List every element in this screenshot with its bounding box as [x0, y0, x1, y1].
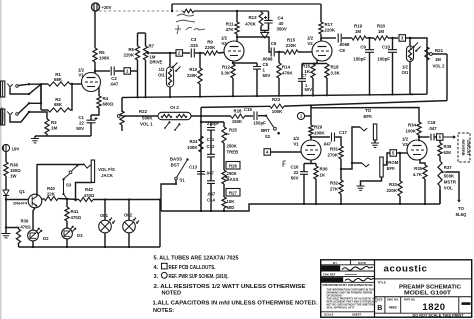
svg-text:R41: R41 — [71, 209, 79, 214]
svg-text:BASS: BASS — [227, 177, 239, 182]
wire B+ top rail — [172, 3, 321, 5]
svg-text:3: 3 — [401, 36, 404, 41]
svg-text:C15: C15 — [244, 107, 252, 112]
capacitor C10 100pF — [388, 50, 397, 53]
junction R39 tap — [5, 226, 7, 228]
resistor R1 68K — [48, 82, 70, 86]
junction rail — [411, 93, 413, 95]
svg-text:C8: C8 — [339, 48, 345, 53]
svg-text:470Ω: 470Ω — [71, 215, 82, 220]
svg-text:PART NO.: PART NO. — [404, 299, 416, 302]
svg-text:1W: 1W — [10, 174, 17, 179]
wire drive branch left — [137, 33, 139, 46]
wire R39 bottom — [18, 243, 20, 247]
junction R42/jack — [74, 199, 76, 201]
svg-text:R25: R25 — [229, 128, 237, 133]
wire R31 to R32 — [340, 159, 342, 180]
jack FROM EFF — [380, 157, 383, 177]
wire jack sleeve down — [76, 183, 93, 201]
svg-text:VOL 1: VOL 1 — [140, 122, 153, 127]
svg-text:R7: R7 — [149, 44, 155, 49]
junction bus tone — [223, 210, 225, 212]
wire C1 bottom — [90, 123, 92, 136]
transistor Q1 2N6474 — [28, 194, 42, 208]
wire C11 col top — [210, 122, 212, 126]
wire line A left — [201, 106, 270, 107]
svg-text:.047: .047 — [206, 171, 215, 176]
pcb box label R26 — [226, 162, 240, 170]
wire C15 out — [258, 115, 266, 117]
junction base node — [5, 198, 7, 200]
pcb callout 2 — [176, 50, 183, 57]
pcb callout 3 — [399, 35, 406, 42]
wire D2 bottom — [32, 241, 34, 247]
junction drive/OI1 — [169, 52, 171, 54]
wire callout stub — [305, 115, 311, 117]
wire V1a cathode — [98, 87, 100, 96]
wire R10 top — [199, 53, 201, 68]
svg-text:1820: 1820 — [422, 302, 445, 313]
wire rail drop x=172 — [171, 4, 173, 11]
node +19V supply — [2, 144, 9, 151]
svg-text:6L6Q: 6L6Q — [456, 212, 467, 217]
svg-text:6: 6 — [439, 135, 442, 140]
svg-text:.015: .015 — [189, 43, 198, 48]
svg-text:EFF.: EFF. — [363, 114, 372, 119]
pencil F mark — [283, 161, 286, 167]
capacitor C9 150pF — [365, 50, 374, 53]
switch S3 — [72, 166, 78, 171]
wire C18 out — [435, 136, 437, 138]
svg-text:C16: C16 — [290, 165, 299, 170]
svg-text:220K: 220K — [325, 28, 336, 33]
wire R38 down — [5, 176, 7, 190]
svg-text:R6: R6 — [128, 47, 134, 52]
svg-text:100K: 100K — [272, 109, 283, 114]
svg-text:470Ω: 470Ω — [20, 225, 31, 230]
svg-text:OI 2: OI 2 — [124, 213, 133, 218]
wire bus end up — [439, 190, 441, 204]
wire V1b cathode — [310, 160, 312, 164]
wire OI1 ldr top — [409, 38, 411, 46]
wire collector line — [37, 164, 84, 166]
title divider 1 — [375, 278, 472, 280]
junction eff send — [340, 168, 342, 170]
svg-text:C4: C4 — [278, 16, 284, 21]
svg-text:V2: V2 — [221, 41, 227, 46]
svg-text:S2: S2 — [265, 134, 271, 139]
svg-text:250K: 250K — [227, 171, 238, 176]
svg-text:SHEET: SHEET — [352, 313, 362, 317]
svg-text:22K: 22K — [47, 192, 56, 197]
junction lamp OI1 — [104, 198, 106, 200]
junction tone top — [200, 121, 202, 123]
wire R2 in — [41, 109, 48, 111]
svg-text:470K: 470K — [245, 22, 256, 27]
wire V1b grid to VOL2 wiper (line A) — [284, 101, 447, 107]
resistor R2 68K — [48, 108, 70, 112]
svg-text:1M: 1M — [378, 29, 384, 34]
capacitor C14 .047 — [207, 181, 215, 184]
svg-text:REF PCB CALLOUTS.: REF PCB CALLOUTS. — [169, 265, 216, 271]
wire bottom bus — [161, 204, 440, 211]
svg-text:R26: R26 — [229, 164, 237, 169]
svg-text:R4: R4 — [103, 96, 109, 101]
resistor R34 100K — [417, 122, 421, 135]
wire C6 out — [275, 51, 284, 53]
wire R12 bottom — [232, 78, 234, 96]
title bottom cells — [375, 297, 472, 314]
pcb callout V3 grid — [390, 150, 397, 157]
ground power — [2, 234, 11, 238]
wire common rail — [122, 94, 427, 97]
svg-text:.047: .047 — [428, 126, 437, 131]
arrow to reverb box — [443, 136, 455, 138]
wire top rail drop — [320, 4, 322, 22]
wire to VOL2 — [410, 38, 427, 94]
wire R33 bottom — [399, 196, 401, 204]
svg-text:R18: R18 — [331, 65, 340, 70]
wire OI2 out to R28 — [191, 115, 231, 117]
svg-text:270K: 270K — [328, 153, 339, 158]
svg-text:1/2: 1/2 — [293, 136, 300, 141]
svg-text:V1: V1 — [78, 73, 84, 78]
svg-text:100K: 100K — [406, 129, 417, 134]
svg-text:R12: R12 — [222, 65, 231, 70]
svg-text:TO: TO — [365, 108, 372, 113]
wire treb col top — [223, 122, 225, 127]
svg-text:1M: 1M — [51, 126, 57, 131]
svg-text:EFF.: EFF. — [387, 166, 396, 171]
svg-text:BST: BST — [171, 163, 180, 168]
svg-text:220K: 220K — [387, 188, 398, 193]
wire plate tap — [320, 38, 322, 41]
resistor R5 100K — [93, 48, 97, 62]
svg-text:C9: C9 — [360, 45, 366, 50]
wire plate to C18 — [419, 136, 430, 138]
wire C4 bottom — [268, 23, 270, 31]
wire R37 bottom — [439, 186, 441, 204]
wire C7 bottom — [301, 81, 303, 95]
svg-text:R13: R13 — [248, 15, 257, 20]
svg-text:OI 1: OI 1 — [100, 213, 109, 218]
resistor R9 220K — [204, 51, 218, 55]
svg-text:R3: R3 — [51, 120, 57, 125]
scan edge left — [0, 0, 2, 319]
svg-text:R36: R36 — [444, 144, 452, 149]
svg-text:2: 2 — [178, 51, 181, 56]
wire send line — [341, 127, 360, 169]
wire FROM EFF sleeve — [361, 177, 382, 186]
wire R3 top — [30, 112, 47, 119]
svg-text:DO NOT SCALE THIS PRINT: DO NOT SCALE THIS PRINT — [413, 314, 464, 318]
resistor R3 1M — [45, 119, 49, 134]
wire LED bus — [19, 246, 161, 248]
svg-text:acoustic: acoustic — [384, 264, 428, 275]
resistor R38 150Ω 1W — [4, 162, 8, 176]
svg-text:Q1: Q1 — [19, 189, 25, 194]
wire MSTR wiper out — [446, 172, 460, 199]
svg-text:R35: R35 — [414, 166, 422, 171]
wire callout3 out — [406, 37, 413, 39]
junction grid node — [71, 83, 73, 85]
svg-text:R16: R16 — [302, 64, 311, 69]
resistor R35 4.7K — [423, 165, 427, 179]
wire V2b plate out — [321, 37, 336, 39]
wire callout to V3 grid — [397, 152, 408, 154]
svg-text:TREB: TREB — [227, 150, 239, 155]
wire jack1 ring — [10, 84, 41, 94]
svg-text:2N6474: 2N6474 — [13, 201, 28, 206]
resistor R40 22K — [44, 196, 58, 200]
svg-text:50V: 50V — [291, 176, 299, 181]
svg-text:1/2: 1/2 — [221, 36, 228, 41]
junction tone input — [200, 115, 202, 117]
wire R16 bottom — [312, 78, 314, 96]
svg-text:3.: 3. — [154, 274, 159, 280]
svg-text:R39: R39 — [21, 219, 29, 224]
jack J2 input — [1, 109, 5, 125]
wire R30 bottom — [315, 179, 317, 204]
svg-text:150pF: 150pF — [253, 121, 266, 126]
junction rail — [232, 95, 234, 97]
wire R29 to plate — [310, 136, 312, 140]
potentiometer R37 500K MSTR VOL — [438, 161, 442, 186]
wire R13/C4 bottom bar — [261, 26, 269, 31]
resistor R13 470K — [259, 12, 263, 26]
resistor R36 62K — [438, 143, 442, 156]
svg-text:680Ω: 680Ω — [103, 102, 114, 107]
svg-text:PROPRIETARY INFORMATION: PROPRIETARY INFORMATION — [323, 283, 374, 287]
svg-text:27K: 27K — [330, 187, 339, 192]
svg-text:REVERB: REVERB — [461, 139, 466, 155]
wire C10 bottom — [392, 52, 394, 94]
resistor R41 470Ω — [65, 207, 69, 221]
svg-text:R34: R34 — [408, 123, 417, 128]
svg-text:4662: 4662 — [389, 306, 397, 310]
wire R18 bottom — [326, 78, 328, 95]
junction LED bus — [104, 246, 106, 248]
svg-text:470Ω: 470Ω — [84, 193, 95, 198]
wire VOL2 wiper down — [446, 54, 448, 101]
svg-text:22: 22 — [294, 170, 299, 175]
wire C7 top — [301, 64, 303, 79]
svg-text:R38: R38 — [10, 163, 18, 168]
junction send/return — [351, 162, 353, 164]
resistor R39 470Ω — [16, 229, 20, 243]
wire VOL2 wiper out — [432, 53, 447, 55]
svg-text:62K: 62K — [444, 150, 453, 155]
capacitor C1 22/50V — [87, 120, 96, 123]
svg-text:1/2: 1/2 — [159, 67, 165, 72]
wire R2 out — [70, 84, 72, 110]
svg-text:C17: C17 — [339, 130, 347, 135]
notes callout box glyph — [162, 263, 168, 269]
svg-text:68K: 68K — [54, 77, 63, 82]
junction lamp line — [159, 198, 161, 200]
wire OI2 lamp top — [128, 200, 130, 221]
svg-text:C5: C5 — [263, 62, 269, 67]
svg-text:.047: .047 — [110, 82, 119, 87]
svg-text:50V: 50V — [76, 126, 84, 131]
wire R3 bottom to ground line — [46, 134, 48, 136]
title block frame — [321, 260, 472, 317]
resistor R30 1K — [314, 166, 318, 179]
junction bus — [303, 203, 305, 205]
wire R39 top — [6, 228, 19, 230]
junction LED bus — [128, 246, 130, 248]
wire R5 to plate — [94, 62, 96, 74]
opto OI1 LDR (1/2 OI1) — [166, 67, 173, 87]
wire cathode to C5 — [233, 62, 257, 64]
junction rail — [169, 96, 171, 98]
wire R15 to V2b grid — [298, 51, 312, 53]
svg-text:R29: R29 — [314, 125, 323, 130]
wire R30 leads — [315, 164, 317, 167]
junction bus — [315, 203, 317, 205]
wire R10 bottom — [199, 84, 201, 97]
ground TO EFF — [371, 143, 379, 147]
junction V1b plate — [310, 136, 312, 138]
svg-text:350V: 350V — [277, 27, 287, 32]
resistor R10 220K — [198, 68, 202, 84]
svg-text:C1: C1 — [78, 115, 84, 120]
wire R6 bottom — [137, 60, 139, 97]
svg-text:R24: R24 — [189, 139, 198, 144]
wire V2a plate out (step) — [237, 37, 271, 52]
potentiometer R26 250K BASS — [222, 170, 226, 184]
wire B+ line to R34 (line B) — [311, 108, 419, 123]
LED D3 — [62, 228, 73, 239]
svg-text:R17: R17 — [325, 22, 334, 27]
wire jack1 tip — [18, 84, 41, 85]
svg-text:2. ALL RESISTORS 1/2 WATT UNLE: 2. ALL RESISTORS 1/2 WATT UNLESS OTHERWI… — [154, 284, 306, 290]
junction rail — [256, 95, 258, 97]
resistor R17 220K — [319, 22, 323, 34]
svg-text:D2: D2 — [43, 236, 49, 241]
svg-text:4.: 4. — [154, 265, 159, 271]
resistor R42 470Ω — [79, 197, 93, 201]
wire plate to C17 — [311, 136, 330, 138]
opto OI1 LDR (1/2 OI1) — [407, 46, 414, 62]
svg-text:1: 1 — [300, 114, 303, 119]
svg-text:CIRCUIT: CIRCUIT — [466, 140, 471, 156]
svg-text:VOL F/S: VOL F/S — [98, 167, 115, 172]
wire C5 bottom — [256, 69, 258, 96]
wire V1a plate out — [95, 70, 110, 72]
svg-text:150K: 150K — [232, 119, 243, 124]
svg-text:V2: V2 — [307, 41, 313, 46]
wire R40 out — [58, 199, 79, 200]
resistor R29 100K — [309, 125, 313, 136]
svg-text:5. ALL TUBES ARE 12AX7A/ 7025: 5. ALL TUBES ARE 12AX7A/ 7025 — [154, 256, 239, 262]
svg-text:3.3K: 3.3K — [221, 71, 231, 76]
svg-text:V1: V1 — [293, 142, 299, 147]
junction LED bus — [66, 246, 68, 248]
wire R9 to V2a grid — [218, 52, 224, 55]
svg-text:1.ALL CAPACITORS IN mfd UNLESS: 1.ALL CAPACITORS IN mfd UNLESS OTHERWISE… — [153, 301, 318, 307]
wire drive branch right — [145, 33, 147, 46]
svg-text:220K: 220K — [205, 45, 216, 50]
potentiometer R25 250K TREB — [222, 127, 226, 143]
wire callout1 to drive — [131, 70, 138, 72]
resistor R14 470K — [277, 63, 281, 78]
svg-text:.0068: .0068 — [262, 57, 274, 62]
svg-text:C10: C10 — [382, 45, 391, 50]
pencil note 48/R18 — [176, 14, 195, 22]
wire OI1 ldr bottom — [169, 87, 171, 97]
wire +20V rail faded — [99, 10, 183, 12]
junction OI1 ldr — [409, 37, 411, 39]
tube V1a (1/2 V1) — [82, 73, 101, 92]
junction bus tone — [200, 210, 202, 212]
svg-text:500K: 500K — [444, 174, 455, 179]
junction V1a plate — [94, 70, 96, 72]
svg-text:270pF: 270pF — [207, 121, 220, 126]
resistor R28 150K — [231, 114, 245, 118]
wire R17 to plate — [320, 34, 322, 41]
svg-text:40: 40 — [279, 21, 284, 26]
svg-text:MSTR: MSTR — [444, 180, 457, 185]
wire C3 out — [195, 52, 204, 54]
capacitor C15 150pF — [254, 111, 257, 120]
wire C1 top — [90, 115, 92, 120]
svg-text:3.3K: 3.3K — [331, 71, 341, 76]
svg-text:250K: 250K — [227, 144, 238, 149]
svg-text:1: 1 — [263, 68, 266, 73]
svg-text:R22: R22 — [139, 109, 148, 114]
svg-text:DWG NO.: DWG NO. — [387, 299, 399, 302]
wire OI1 lamp top — [104, 200, 106, 221]
junction bus — [340, 203, 342, 205]
junction rail — [301, 94, 303, 96]
wire rail to C4 — [268, 11, 270, 20]
pwr callout B+ V1b — [297, 112, 304, 119]
wire return to callout — [383, 153, 390, 165]
svg-text:R9: R9 — [207, 40, 213, 45]
svg-text:R37: R37 — [444, 165, 452, 170]
svg-text:JACK: JACK — [101, 173, 114, 178]
wire V2a cathode — [232, 61, 234, 64]
svg-text:REF. PWR SUP SCHEM. (1810).: REF. PWR SUP SCHEM. (1810). — [169, 274, 229, 280]
svg-text:SCALE: SCALE — [324, 313, 334, 317]
wire cathode bus — [313, 63, 327, 65]
switch S2 BRT — [266, 116, 274, 128]
svg-text:C3: C3 — [191, 37, 197, 42]
wire C10 top — [392, 38, 394, 50]
resistor R31 270K — [339, 146, 343, 159]
wire rail to R11 — [236, 11, 238, 22]
svg-text:C12: C12 — [207, 144, 215, 149]
svg-text:150Ω: 150Ω — [10, 168, 21, 173]
wire B+ to R5 — [94, 11, 96, 48]
svg-text:TO: TO — [458, 206, 465, 211]
svg-text:50V: 50V — [305, 87, 313, 92]
wire R20 out — [388, 37, 398, 39]
wire VOL1 wiper to OI2 — [124, 115, 159, 117]
wire grid V1b — [271, 151, 302, 153]
wire OI1 ldr top — [169, 53, 171, 67]
svg-text:CHK REF: CHK REF — [323, 272, 336, 276]
svg-text:C6: C6 — [271, 41, 277, 46]
svg-text:B: B — [377, 305, 382, 312]
svg-text:MID: MID — [227, 205, 235, 210]
title divider 2 — [375, 296, 472, 298]
wire C9 bottom — [369, 52, 371, 94]
svg-text:C18: C18 — [428, 120, 436, 125]
tube V2b (1/2 V2) — [312, 41, 332, 61]
wire R26-R27 — [223, 184, 225, 197]
